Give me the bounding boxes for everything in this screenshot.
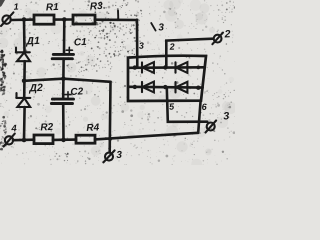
node: bottom wire at C branch [61, 138, 66, 143]
pin 6 lead [198, 101, 200, 133]
terminal 2 [212, 33, 223, 45]
pin 5 lead and wire to terminal 3 right [167, 87, 207, 122]
resistor R3 [73, 15, 95, 24]
bridge top rail [129, 66, 204, 69]
terminal 3 (bottom) [103, 150, 114, 162]
svg-text:Д2: Д2 [28, 82, 43, 95]
svg-text:R4: R4 [86, 122, 100, 134]
wire: bottom long run to pin 6 [95, 133, 198, 140]
bridge junction dots [133, 65, 137, 69]
resistor R2 [34, 135, 53, 144]
node: bottom wire at D branch [22, 138, 27, 143]
resistor R4 [76, 135, 95, 143]
pin 2 lead and wire to terminal 2 [166, 39, 213, 68]
terminal 3 (right) [206, 121, 217, 133]
svg-text:Д1: Д1 [25, 35, 40, 48]
diode bottom-right [176, 82, 188, 93]
diode assembly box [128, 56, 206, 101]
svg-text:2: 2 [223, 28, 231, 40]
wire: terminal 4 to R2 [13, 138, 34, 141]
svg-text:C2: C2 [70, 86, 84, 98]
resistor R1 [34, 15, 54, 24]
diode top-left [142, 62, 154, 73]
wire: terminal 1 to R1 [11, 18, 34, 21]
svg-text:C1: C1 [74, 37, 88, 49]
svg-text:4: 4 [10, 123, 17, 134]
svg-text:2: 2 [168, 42, 174, 52]
svg-text:R2: R2 [40, 122, 54, 134]
terminal 1 (top-left) [1, 12, 13, 26]
designator leader [151, 23, 155, 31]
svg-text:3: 3 [116, 150, 122, 161]
wire: C branch to C2 [62, 79, 65, 98]
node: middle wire at D branch [22, 79, 27, 84]
svg-text:3: 3 [139, 41, 144, 51]
terminal 4 (bottom-left) [4, 134, 15, 147]
node: C1 branch tap [62, 17, 67, 22]
bridge bottom rail [129, 86, 203, 89]
diode top-right [176, 62, 188, 73]
zener D1 [16, 48, 30, 62]
wire: C branch vertical upper [63, 20, 66, 54]
wire: R2 to R4 [53, 138, 76, 141]
artifact tick above top wire [117, 11, 119, 20]
svg-text:3: 3 [158, 22, 164, 33]
wire: D branch vertical upper [23, 20, 26, 53]
wire: corner down to bottom terminal 3 [108, 82, 111, 153]
svg-text:R3: R3 [90, 1, 104, 13]
svg-text:1: 1 [13, 2, 18, 12]
diode bottom-left [142, 82, 154, 93]
capacitor C2 [51, 99, 73, 103]
wire: R3 right, corner, down to bridge pin 3 [95, 20, 137, 68]
paper noise [0, 0, 237, 169]
zener D2 [16, 93, 30, 107]
wire: C branch lower [62, 104, 65, 141]
wire: D branch vertical middle [23, 61, 26, 98]
svg-text:3: 3 [223, 110, 230, 122]
node: D1 branch tap [22, 17, 27, 22]
node: bottom wire to terminal 3 [108, 137, 112, 141]
capacitor C1 [52, 54, 73, 58]
svg-text:R1: R1 [46, 2, 60, 14]
wire: R1 to R3 [54, 18, 73, 21]
wire: D branch vertical lower [23, 107, 26, 140]
middle wire [24, 79, 110, 82]
node: middle wire at C branch [61, 76, 66, 81]
wire: C branch to middle wire [62, 59, 65, 79]
